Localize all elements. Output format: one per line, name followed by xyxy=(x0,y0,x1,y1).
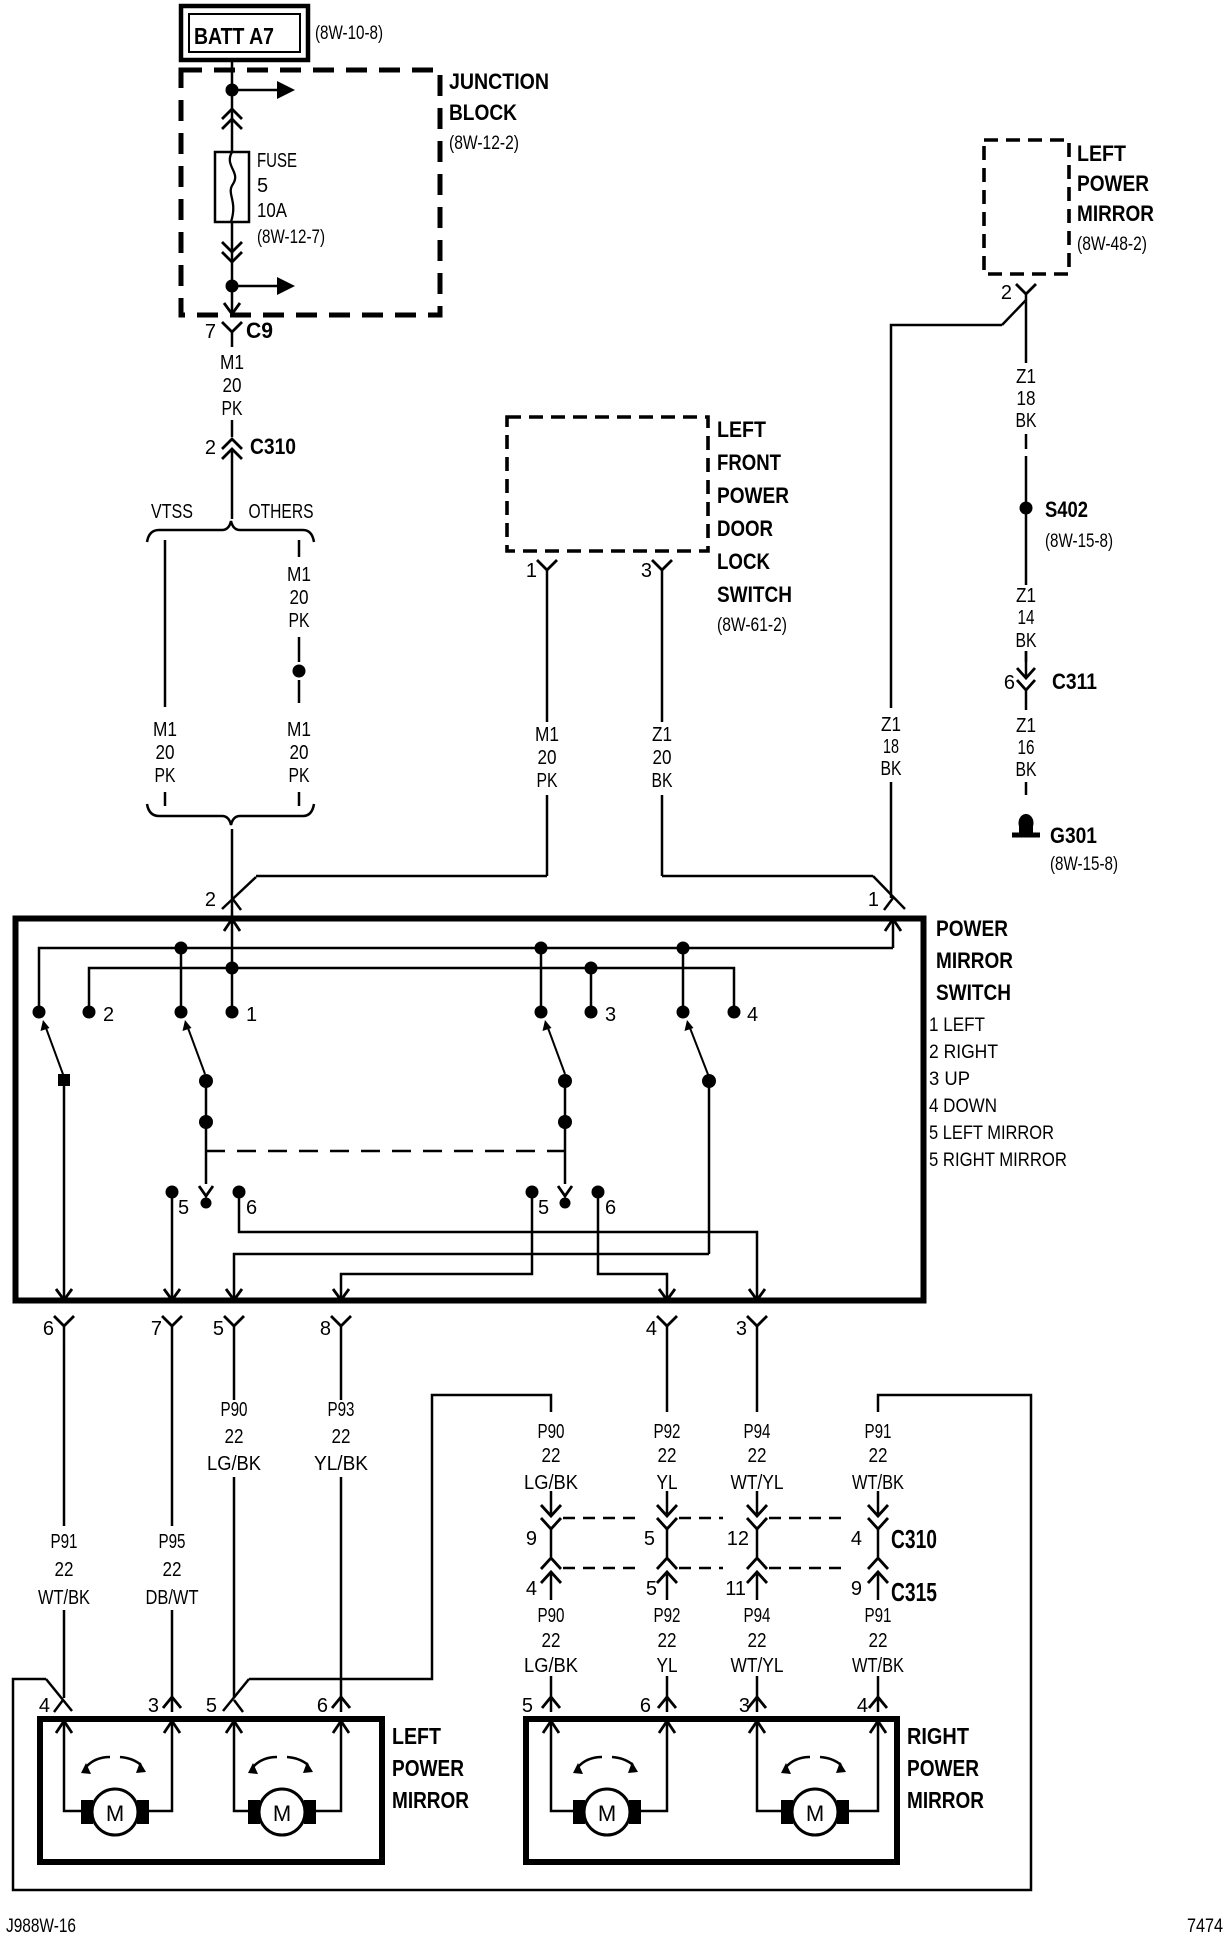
wire connector3 to C310 pin12 xyxy=(756,1341,759,1412)
power mirror switch box xyxy=(16,919,924,1301)
wire contact5L to connector 7 xyxy=(171,1192,174,1300)
fuse 5 10A xyxy=(215,152,249,222)
connector chevrons below fuse xyxy=(222,242,242,252)
svg-text:12: 12 xyxy=(727,1528,749,1550)
svg-text:RIGHT: RIGHT xyxy=(907,1723,969,1749)
wire OTHERS branch dashed xyxy=(298,540,301,557)
svg-text:OTHERS: OTHERS xyxy=(249,501,314,523)
feed arrow right bottom xyxy=(232,285,278,288)
svg-text:4: 4 xyxy=(851,1528,862,1550)
svg-text:(8W-15-8): (8W-15-8) xyxy=(1050,854,1118,875)
switch arm A (left outer) xyxy=(41,1020,50,1031)
svg-text:20: 20 xyxy=(156,742,175,764)
svg-text:POWER: POWER xyxy=(907,1755,979,1781)
svg-text:4: 4 xyxy=(857,1695,868,1717)
left power mirror box xyxy=(40,1719,382,1862)
wire VTSS branch xyxy=(164,540,167,707)
svg-text:C310: C310 xyxy=(250,434,296,459)
in-line connector C310/C315 column P90 xyxy=(550,1491,553,1514)
junction dots on buses xyxy=(175,942,188,955)
svg-text:22: 22 xyxy=(658,1445,677,1467)
brace merge to switch xyxy=(147,804,314,825)
svg-text:C311: C311 xyxy=(1052,669,1097,694)
svg-text:VTSS: VTSS xyxy=(151,501,193,523)
svg-text:2: 2 xyxy=(205,889,216,911)
svg-text:POWER: POWER xyxy=(936,916,1008,941)
svg-text:PK: PK xyxy=(289,765,311,787)
svg-text:(8W-61-2): (8W-61-2) xyxy=(717,615,787,636)
svg-text:6: 6 xyxy=(1004,672,1015,694)
svg-text:BATT A7: BATT A7 xyxy=(194,23,274,49)
svg-text:P91: P91 xyxy=(865,1421,892,1443)
svg-text:6: 6 xyxy=(605,1197,616,1219)
svg-text:WT/YL: WT/YL xyxy=(731,1472,784,1494)
svg-text:20: 20 xyxy=(290,742,309,764)
exit arrow junction block xyxy=(224,303,240,314)
svg-text:M1: M1 xyxy=(287,719,311,741)
svg-text:3 UP: 3 UP xyxy=(929,1069,970,1090)
svg-text:YL: YL xyxy=(657,1655,678,1677)
svg-text:SWITCH: SWITCH xyxy=(717,582,792,607)
svg-text:Z1: Z1 xyxy=(1016,585,1036,607)
svg-text:M1: M1 xyxy=(153,719,177,741)
svg-text:11: 11 xyxy=(725,1578,746,1600)
svg-text:BK: BK xyxy=(1016,410,1038,432)
svg-text:C9: C9 xyxy=(246,318,273,343)
svg-text:5 LEFT MIRROR: 5 LEFT MIRROR xyxy=(929,1123,1054,1144)
svg-text:20: 20 xyxy=(223,375,242,397)
svg-text:22: 22 xyxy=(542,1630,561,1652)
right mirror motor M4 xyxy=(757,1721,792,1811)
wire connector4 to C310 pin5 xyxy=(666,1341,669,1412)
svg-text:1: 1 xyxy=(526,560,537,582)
svg-text:PK: PK xyxy=(222,398,244,420)
svg-text:16: 16 xyxy=(1018,737,1035,759)
svg-text:6: 6 xyxy=(640,1695,651,1717)
left mirror motor M1 xyxy=(64,1721,92,1811)
svg-text:4: 4 xyxy=(747,1004,758,1026)
left power mirror dashed box (top) xyxy=(984,140,1069,274)
svg-text:P93: P93 xyxy=(328,1399,355,1421)
svg-text:2: 2 xyxy=(103,1004,114,1026)
switch contacts bottom row xyxy=(166,1186,179,1199)
switch arm D (right outer) xyxy=(685,1020,694,1031)
svg-text:S402: S402 xyxy=(1045,497,1088,522)
svg-text:M: M xyxy=(598,1801,616,1826)
svg-text:8: 8 xyxy=(320,1318,331,1340)
wire mirror pin2 to switch pin1 (long) xyxy=(891,325,1002,708)
wire battery to fuse xyxy=(231,58,234,152)
right power mirror box xyxy=(526,1719,897,1862)
svg-text:22: 22 xyxy=(332,1426,351,1448)
svg-text:Z1: Z1 xyxy=(652,724,672,746)
svg-text:POWER: POWER xyxy=(1077,171,1149,196)
mechanical link dashed xyxy=(206,1150,565,1152)
svg-text:1: 1 xyxy=(868,889,879,911)
svg-text:WT/BK: WT/BK xyxy=(852,1472,905,1494)
svg-text:LEFT: LEFT xyxy=(717,417,766,442)
svg-text:22: 22 xyxy=(55,1559,74,1581)
in-line connector C310/C315 column P94 xyxy=(756,1491,759,1514)
svg-text:20: 20 xyxy=(538,747,557,769)
svg-text:3: 3 xyxy=(605,1004,616,1026)
wire door lock pin1 to switch pin2 xyxy=(256,875,547,878)
wire contact6R to connector 4 xyxy=(598,1192,667,1300)
svg-text:FUSE: FUSE xyxy=(257,150,297,172)
svg-text:14: 14 xyxy=(1018,607,1035,629)
svg-text:(8W-10-8): (8W-10-8) xyxy=(315,23,383,44)
svg-text:(8W-15-8): (8W-15-8) xyxy=(1045,531,1113,552)
wire door lock pin3 down xyxy=(661,583,664,722)
right mirror motor M3 xyxy=(551,1721,584,1811)
svg-text:6: 6 xyxy=(43,1318,54,1340)
svg-text:LOCK: LOCK xyxy=(717,549,770,574)
svg-text:P92: P92 xyxy=(654,1605,681,1627)
svg-text:Z1: Z1 xyxy=(1016,715,1036,737)
switch contacts top row xyxy=(33,1006,46,1019)
svg-text:P95: P95 xyxy=(159,1531,186,1553)
switch arm C (right center) xyxy=(543,1020,552,1031)
svg-text:P90: P90 xyxy=(538,1605,565,1627)
svg-text:C315: C315 xyxy=(891,1577,937,1607)
wire merge to switch pin 2 xyxy=(231,829,234,916)
svg-text:3: 3 xyxy=(736,1318,747,1340)
svg-text:BK: BK xyxy=(1016,630,1038,652)
svg-text:LG/BK: LG/BK xyxy=(524,1655,579,1677)
wires C315 to right mirror xyxy=(550,1676,553,1712)
svg-text:JUNCTION: JUNCTION xyxy=(449,69,549,94)
splice dot battery feed xyxy=(226,84,239,97)
svg-text:P94: P94 xyxy=(744,1421,771,1443)
svg-text:WT/YL: WT/YL xyxy=(731,1655,784,1677)
svg-text:Z1: Z1 xyxy=(1016,366,1036,388)
switch arm B (left center) xyxy=(183,1020,192,1031)
svg-text:BK: BK xyxy=(652,770,674,792)
svg-text:M: M xyxy=(806,1801,824,1826)
svg-text:5: 5 xyxy=(178,1197,189,1219)
svg-text:10A: 10A xyxy=(257,200,288,222)
wire door lock pin1 down xyxy=(546,583,549,722)
exit arrow to connector 6 xyxy=(56,1289,72,1300)
battery feed box BATT A7 xyxy=(181,6,308,60)
svg-text:20: 20 xyxy=(653,747,672,769)
ground G301 xyxy=(1019,814,1034,832)
svg-text:(8W-48-2): (8W-48-2) xyxy=(1077,234,1147,255)
wire fuse to lower splice xyxy=(231,222,234,314)
junction block dashed box xyxy=(181,70,440,315)
bus drop wires xyxy=(180,948,183,1008)
svg-text:6: 6 xyxy=(317,1695,328,1717)
svg-text:22: 22 xyxy=(869,1445,888,1467)
svg-text:5 RIGHT MIRROR: 5 RIGHT MIRROR xyxy=(929,1150,1067,1171)
svg-text:M1: M1 xyxy=(220,352,244,374)
svg-text:LEFT: LEFT xyxy=(1077,141,1126,166)
svg-text:7: 7 xyxy=(205,321,216,343)
svg-text:G301: G301 xyxy=(1050,823,1097,848)
svg-text:DB/WT: DB/WT xyxy=(146,1587,199,1609)
in-line connector C310/C315 column P92 xyxy=(666,1491,669,1514)
svg-text:M1: M1 xyxy=(535,724,559,746)
wire mirror pin2 branch diagonal xyxy=(1002,300,1026,325)
svg-text:7: 7 xyxy=(151,1318,162,1340)
svg-text:18: 18 xyxy=(1017,388,1036,410)
svg-text:MIRROR: MIRROR xyxy=(907,1787,984,1813)
svg-text:P92: P92 xyxy=(654,1421,681,1443)
svg-text:P94: P94 xyxy=(744,1605,771,1627)
splice dot OTHERS wire xyxy=(293,665,306,678)
brace split VTSS/OTHERS xyxy=(147,521,314,542)
wire C310 to brace xyxy=(231,449,234,519)
svg-text:WT/BK: WT/BK xyxy=(38,1587,91,1609)
svg-text:PK: PK xyxy=(289,610,311,632)
svg-text:MIRROR: MIRROR xyxy=(392,1787,469,1813)
svg-text:9: 9 xyxy=(851,1578,862,1600)
bus wire upper (pin1 net) xyxy=(39,948,893,1008)
svg-text:2: 2 xyxy=(205,437,216,459)
svg-text:P90: P90 xyxy=(221,1399,248,1421)
svg-text:22: 22 xyxy=(869,1630,888,1652)
svg-text:2: 2 xyxy=(1001,282,1012,304)
svg-text:9: 9 xyxy=(526,1528,537,1550)
svg-text:5: 5 xyxy=(522,1695,533,1717)
wire mirror pin2 to S402 xyxy=(1025,300,1028,363)
svg-text:(8W-12-7): (8W-12-7) xyxy=(257,227,325,248)
svg-text:MIRROR: MIRROR xyxy=(1077,201,1154,226)
svg-text:LG/BK: LG/BK xyxy=(524,1472,579,1494)
C315 dashed gang line xyxy=(563,1567,639,1570)
svg-text:LG/BK: LG/BK xyxy=(207,1453,262,1475)
svg-text:22: 22 xyxy=(542,1445,561,1467)
svg-text:4: 4 xyxy=(39,1695,50,1717)
splice S402 xyxy=(1020,502,1033,515)
svg-text:SWITCH: SWITCH xyxy=(936,980,1011,1005)
svg-text:M: M xyxy=(106,1801,124,1826)
svg-text:4 DOWN: 4 DOWN xyxy=(929,1096,997,1117)
wire S402 to C311 xyxy=(1025,514,1028,585)
wire branch P90 to C310 xyxy=(249,1395,551,1679)
svg-text:5: 5 xyxy=(538,1197,549,1219)
svg-text:7474: 7474 xyxy=(1187,1916,1223,1937)
svg-text:YL: YL xyxy=(657,1472,678,1494)
svg-text:M: M xyxy=(273,1801,291,1826)
svg-text:4: 4 xyxy=(646,1318,657,1340)
svg-text:22: 22 xyxy=(748,1445,767,1467)
wire segment above C310 xyxy=(231,420,234,437)
connector chevrons above fuse xyxy=(222,109,242,119)
svg-text:5: 5 xyxy=(206,1695,217,1717)
svg-text:DOOR: DOOR xyxy=(717,516,773,541)
svg-text:MIRROR: MIRROR xyxy=(936,948,1013,973)
wire connector5 to left mirror pin5 xyxy=(233,1341,236,1400)
left mirror motor M2 xyxy=(234,1721,259,1811)
svg-text:22: 22 xyxy=(658,1630,677,1652)
svg-text:3: 3 xyxy=(641,560,652,582)
wire VTSS dash above merge brace xyxy=(164,792,167,806)
bus wire lower (pin2 net) xyxy=(89,968,734,1008)
wire contact6L to connector 3 xyxy=(239,1192,757,1300)
svg-text:5: 5 xyxy=(644,1528,655,1550)
svg-text:22: 22 xyxy=(225,1426,244,1448)
svg-text:P91: P91 xyxy=(865,1605,892,1627)
svg-text:22: 22 xyxy=(163,1559,182,1581)
svg-text:18: 18 xyxy=(883,736,899,758)
svg-text:P91: P91 xyxy=(51,1531,78,1553)
svg-text:5: 5 xyxy=(257,175,268,197)
svg-text:POWER: POWER xyxy=(392,1755,464,1781)
svg-text:1: 1 xyxy=(246,1004,257,1026)
wire connector7 to left mirror pin3 xyxy=(171,1341,174,1526)
svg-text:FRONT: FRONT xyxy=(717,450,781,475)
wire connector8 to left mirror pin6 xyxy=(340,1341,343,1400)
wire dash above ground xyxy=(1025,782,1028,795)
wire branch P91 loop to C310 xyxy=(13,1395,1031,1890)
wire connector6 to left mirror pin4 xyxy=(63,1341,66,1526)
left front power door lock switch dashed box xyxy=(507,417,708,551)
entry arrow switch pin2 xyxy=(224,919,240,931)
svg-text:BK: BK xyxy=(881,758,903,780)
wire contact5R to connector 8 xyxy=(341,1192,532,1300)
wire arm D to connector 5 xyxy=(234,1254,709,1300)
svg-text:YL/BK: YL/BK xyxy=(314,1453,369,1475)
svg-text:BK: BK xyxy=(1016,759,1038,781)
svg-text:(8W-12-2): (8W-12-2) xyxy=(449,133,519,154)
svg-text:M1: M1 xyxy=(287,564,311,586)
svg-text:3: 3 xyxy=(148,1695,159,1717)
svg-text:PK: PK xyxy=(155,765,177,787)
svg-text:Z1: Z1 xyxy=(881,714,901,736)
svg-text:4: 4 xyxy=(526,1578,537,1600)
svg-text:5: 5 xyxy=(213,1318,224,1340)
wire above C311 xyxy=(1025,651,1028,662)
svg-text:5: 5 xyxy=(646,1578,657,1600)
svg-text:C310: C310 xyxy=(891,1524,937,1554)
svg-text:6: 6 xyxy=(246,1197,257,1219)
svg-text:20: 20 xyxy=(290,587,309,609)
splice dot fuse output xyxy=(226,280,239,293)
svg-text:22: 22 xyxy=(748,1630,767,1652)
C310 dashed gang line xyxy=(563,1517,639,1520)
svg-text:BLOCK: BLOCK xyxy=(449,100,517,125)
svg-text:P90: P90 xyxy=(538,1421,565,1443)
entry arrow switch pin1 xyxy=(885,919,901,931)
wire door lock pin3 to switch pin1 xyxy=(662,875,873,878)
svg-text:POWER: POWER xyxy=(717,483,789,508)
in-line connector C310/C315 column P91 xyxy=(877,1491,880,1514)
svg-text:WT/BK: WT/BK xyxy=(852,1655,905,1677)
svg-text:2 RIGHT: 2 RIGHT xyxy=(929,1042,998,1063)
feed arrow right top xyxy=(232,89,278,92)
svg-text:LEFT: LEFT xyxy=(392,1723,441,1749)
svg-text:1 LEFT: 1 LEFT xyxy=(929,1015,985,1036)
svg-text:J988W-16: J988W-16 xyxy=(6,1916,76,1937)
svg-text:PK: PK xyxy=(537,770,559,792)
